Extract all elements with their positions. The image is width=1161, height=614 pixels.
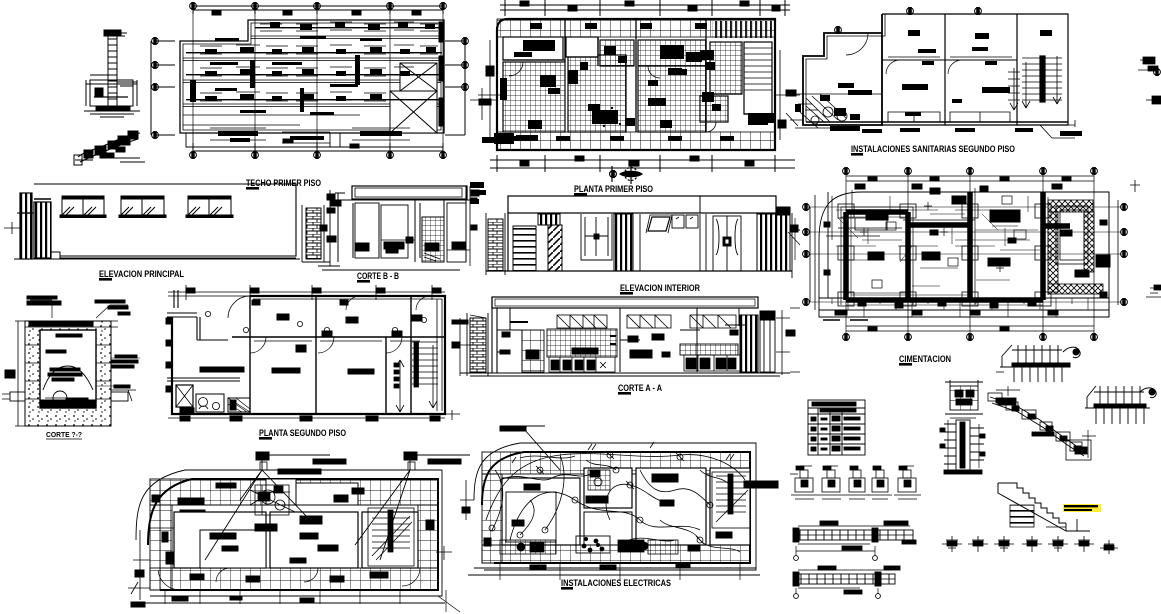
small top rooms white: [566, 37, 598, 57]
grid lines: [846, 171, 1094, 337]
bottom dim: [168, 417, 445, 419]
bottom band: [497, 132, 775, 150]
detail: stair railing 2 (right): [1085, 386, 1156, 424]
planta1 stairs hatch top-right: [482, 21, 774, 144]
grid bubbles left: [803, 204, 810, 211]
black-capped stripes far right: [776, 207, 790, 215]
black marks: [166, 300, 440, 421]
door arcs: [846, 33, 868, 55]
scattered black marks: [824, 184, 1110, 315]
grid bubbles right: [1121, 204, 1128, 211]
grid bubbles right: [462, 38, 469, 45]
bottom dim band: [468, 568, 760, 575]
left outside marks: [790, 225, 798, 232]
vertical stripes panel right: [757, 214, 776, 271]
left outside ticks: [478, 40, 500, 140]
plan: PLANTA PRIMER PISO: [470, 0, 800, 172]
left hatched pillar: [20, 193, 32, 213]
perimeter band: [482, 452, 750, 474]
title CORTE B - B: [357, 271, 399, 283]
brick pillar far left: [470, 318, 486, 372]
plan: TECHO PRIMER PISO: [151, 2, 1160, 159]
outer walls: [497, 19, 775, 150]
dim black ticks: [868, 177, 877, 181]
inner lines around thick walls: [841, 207, 913, 305]
black marks: [462, 474, 778, 570]
diagonal pipe runs: [205, 470, 410, 560]
svg-text:PLANTA SEGUNDO PISO: PLANTA SEGUNDO PISO: [259, 428, 346, 439]
bottom fixtures: grid counters: [500, 536, 678, 554]
detail: septic tank section (lower-left): [2, 296, 140, 426]
tick symbols on wires: [512, 442, 734, 463]
small stripes above diagonal pillar: [538, 214, 560, 225]
interior walls: [882, 14, 1017, 125]
stippled concrete body: [25, 321, 111, 426]
highlighted note (yellow): [1063, 504, 1101, 512]
baseline: [460, 373, 790, 376]
leader lines interior: [920, 226, 1030, 268]
roof slab outline: [180, 20, 444, 133]
planta1 interior wall lines: [503, 19, 772, 132]
title PLANTA PRIMER PISO: [574, 184, 653, 196]
detail: inclined stair reinforcement: [988, 386, 1096, 460]
perimeter grid band top: [497, 19, 775, 37]
grid bubbles top: [190, 3, 197, 10]
top-left stub walls: [167, 290, 200, 340]
dim tick blocks top: [212, 11, 221, 15]
stairs right: [368, 508, 414, 566]
hatch block left: [1010, 505, 1034, 527]
middle-right big tiled room: [638, 40, 706, 132]
middle room: [620, 308, 700, 372]
rubble / stone fill detail (below column detail): [74, 131, 145, 165]
leader texts top: [30, 300, 128, 318]
brick pillar left: [306, 208, 321, 259]
right stair / bath block: [710, 42, 742, 94]
top slab black bar: [29, 322, 93, 326]
techo beam bracket symbols: [200, 22, 438, 143]
left outside dims: [133, 530, 150, 600]
beam detail long 2: [793, 566, 900, 598]
left tall wall: [492, 297, 497, 373]
interior rooms (white): [174, 512, 266, 568]
inner left room border: [506, 492, 556, 542]
grid bubbles: [907, 8, 914, 15]
bath top-middle tiled: [600, 40, 634, 66]
door arcs: [158, 570, 180, 590]
right outside ticks: [775, 50, 800, 140]
door arcs top rooms: [250, 337, 266, 353]
stairs right: [394, 342, 438, 412]
door frame with I: [581, 214, 612, 260]
diagonal hatched pillar: [548, 225, 562, 271]
outer wall with setback: [803, 14, 882, 125]
right grid + counters: [680, 344, 738, 355]
planta1 furniture / fixtures (black blobs): [500, 23, 768, 141]
brick pillar far left: [488, 219, 503, 271]
antenna/leader top-left: [500, 426, 526, 431]
posts: [338, 186, 466, 262]
dim line w marks: [330, 190, 345, 266]
elevation: ELEVACION PRINCIPAL: [4, 184, 300, 259]
big grid hatch panel: [547, 329, 617, 357]
stairwell X brace lower: [390, 91, 437, 133]
svg-text:INSTALACIONES ELECTRICAS: INSTALACIONES ELECTRICAS: [561, 578, 671, 589]
thick walls: [846, 192, 1070, 300]
rooms: [502, 478, 580, 545]
upper-left interior detail: [826, 190, 902, 240]
bottom-left service block: [176, 385, 193, 407]
step wall left: [497, 308, 522, 372]
grid window right: [422, 217, 444, 262]
bottom counters under big grid: [549, 357, 615, 372]
closet rects along bottom wall: [888, 112, 1010, 122]
column footprints (small rect pairs): [838, 204, 1051, 306]
top dim line: [168, 292, 445, 296]
leader below right: [1040, 125, 1075, 138]
stairs right: [712, 472, 750, 528]
outer rounded boundary: [474, 443, 756, 570]
plan: instalaciones sanitarias primer piso (bottom-left): [128, 452, 470, 612]
window 2: [119, 196, 166, 218]
right edge marks: [1130, 57, 1161, 297]
plan: INSTALACIONES SANITARIAS SEGUNDO PISO: [786, 8, 1075, 138]
baseline: [486, 213, 792, 271]
beams of techo (black segments): [186, 22, 443, 142]
grid bubbles bottom: [190, 152, 197, 159]
top band: [508, 196, 776, 213]
beam detail long 1: [793, 521, 916, 560]
black bars mid: [384, 242, 404, 249]
wire fixtures: small circles: [489, 451, 713, 533]
fixtures cluster top-middle: [250, 485, 295, 515]
inner chamber: [40, 330, 96, 408]
window 3: [186, 196, 233, 218]
perimeter tile band: [150, 479, 438, 590]
title ELEVACION PRINCIPAL: [99, 269, 184, 281]
toilet top-middle: [588, 470, 610, 490]
detail: column section small: [945, 380, 983, 414]
plan: INSTALACIONES ELECTRICAS (bottom-middle): [460, 426, 778, 580]
title TECHO PRIMER PISO: [246, 178, 321, 190]
pipes: [10, 392, 25, 401]
two small squares: [672, 215, 684, 228]
elevation: ELEVACION INTERIOR: [486, 196, 800, 278]
plan: PLANTA SEGUNDO PISO: [166, 285, 460, 421]
ladder grid panel: [522, 330, 544, 372]
right dim marks: [776, 310, 790, 375]
top dimension band: [500, 0, 790, 16]
foundation details row (5 footing sections): [790, 466, 921, 499]
section: CORTE A - A: [452, 297, 800, 376]
vertical stripe panel: [614, 214, 633, 271]
column footing detail (top-left): [84, 30, 140, 117]
grid bubbles bottom: [843, 334, 850, 341]
door leafs: [355, 203, 379, 258]
wavy wires: [486, 454, 745, 552]
legend table (bottom-left of details): [808, 400, 865, 455]
far right cap panel: [760, 311, 775, 320]
windows top with diagonals: [557, 315, 736, 328]
bottom dimension band: [490, 155, 795, 172]
mid white corridor: [266, 479, 296, 505]
top beam band: [352, 186, 467, 199]
title CORTE A - A: [618, 383, 662, 395]
detail: stair profile steps: [998, 483, 1090, 531]
door knob circles: [205, 311, 426, 332]
mid wall lines: [640, 214, 706, 271]
outer boundary with top-left arc: [819, 192, 1109, 317]
horizontal-striped panel: [513, 226, 536, 271]
window 1: [60, 196, 106, 218]
bottom black bar: [40, 400, 96, 407]
right room hatched strips: [1048, 200, 1093, 212]
roof line: [34, 184, 296, 256]
bottom band rows: [143, 596, 445, 603]
left rooms tiled: [503, 62, 565, 132]
outer rounded boundary: [136, 470, 442, 596]
vent pipes on top: [256, 452, 269, 460]
dome curve inside: [43, 366, 93, 390]
outer walls: [172, 296, 445, 414]
title CORTE septic: [46, 432, 82, 439]
grid bubbles top: [843, 168, 850, 175]
detail: wall vertical section: [940, 418, 985, 474]
bottom band ticks: [858, 300, 866, 306]
dimension lines: [193, 2, 443, 14]
wall side ticks: [25, 345, 111, 399]
strip footing outer band: [819, 298, 1109, 310]
right room: [447, 203, 466, 262]
detail: stair railing 1 (top of details cluster): [996, 345, 1080, 382]
title ELEVACION INTERIOR: [620, 283, 700, 295]
right ticks: [471, 190, 479, 196]
stairs right: [1022, 58, 1062, 100]
ground steps: [14, 252, 300, 259]
grid bubbles left: [152, 38, 159, 45]
parallelogram vent: [648, 217, 670, 231]
foundation plan: CIMENTACION: [788, 168, 1127, 341]
top beam band: [492, 297, 758, 308]
svg-text:CORTE ?-?: CORTE ?-?: [46, 432, 82, 439]
black furniture marks: [152, 488, 434, 602]
title PLANTA SEGUNDO PISO: [259, 428, 346, 440]
left dim: [15, 321, 28, 426]
double door right: [713, 216, 741, 271]
margin marks left of planta1 title: [470, 182, 486, 204]
interior walls: [232, 296, 445, 414]
bottom small anchor details row: [942, 536, 1118, 554]
bottom left sanitary cluster: [800, 94, 846, 128]
title INSTALACIONES SANITARIAS SEGUNDO PISO: [851, 144, 1015, 156]
right vertical stripes panel: [740, 315, 758, 372]
sanitarias black labels: [795, 30, 1082, 136]
title CIMENTACION: [899, 354, 951, 366]
section: CORTE B - B: [302, 186, 479, 270]
svg-text:INSTALACIONES SANITARIAS SEGUN: INSTALACIONES SANITARIAS SEGUNDO PISO: [851, 144, 1015, 155]
north arrow / compass below planta1: [610, 161, 642, 184]
stairwell X brace upper: [400, 63, 437, 91]
title INSTALACIONES ELECTRICAS: [561, 578, 671, 590]
top black bars: [180, 459, 461, 516]
